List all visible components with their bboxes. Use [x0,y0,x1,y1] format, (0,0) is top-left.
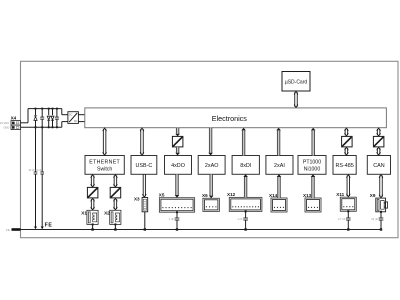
svg-text:X3: X3 [134,197,140,202]
svg-text:X14: X14 [269,193,278,198]
svg-text:CAN: CAN [373,163,384,169]
svg-text:Ni1000: Ni1000 [304,166,321,172]
svg-text:X13: X13 [303,193,312,198]
svg-text:22 nF: 22 nF [35,169,42,172]
svg-text:PT1000: PT1000 [303,159,321,165]
svg-text:X9: X9 [370,193,376,198]
svg-text:DC: DC [69,114,73,117]
svg-text:24 VDC: 24 VDC [0,121,9,125]
svg-text:X12: X12 [227,192,236,197]
svg-text:X2: X2 [104,211,110,216]
svg-text:22 nF: 22 nF [28,169,35,172]
svg-text:Switch: Switch [97,166,112,172]
svg-text:X11: X11 [336,192,344,197]
svg-text:22 nF: 22 nF [371,217,378,221]
svg-text:X4: X4 [11,115,17,120]
svg-text:ETHERNET: ETHERNET [89,159,120,165]
svg-text:1 nF: 1 nF [169,217,175,221]
svg-text:1 nF: 1 nF [237,217,243,221]
svg-text:USB-C: USB-C [136,163,153,169]
svg-text:4.7 nF: 4.7 nF [338,217,346,221]
svg-text:µSD-Card: µSD-Card [285,80,308,86]
svg-text:DC: DC [74,120,78,123]
svg-text:2xAI: 2xAI [274,163,285,169]
svg-text:4xDO: 4xDO [171,163,185,169]
svg-text:FE: FE [45,222,53,228]
svg-text:X6: X6 [202,193,208,198]
svg-text:X1: X1 [81,211,87,216]
svg-text:2xAO: 2xAO [205,163,218,169]
svg-text:8xDI: 8xDI [240,163,251,169]
svg-text:GND: GND [3,126,9,130]
svg-text:X5: X5 [159,193,165,198]
svg-text:RS-485: RS-485 [335,163,353,169]
svg-text:FE: FE [6,228,10,232]
svg-text:Electronics: Electronics [212,114,248,123]
